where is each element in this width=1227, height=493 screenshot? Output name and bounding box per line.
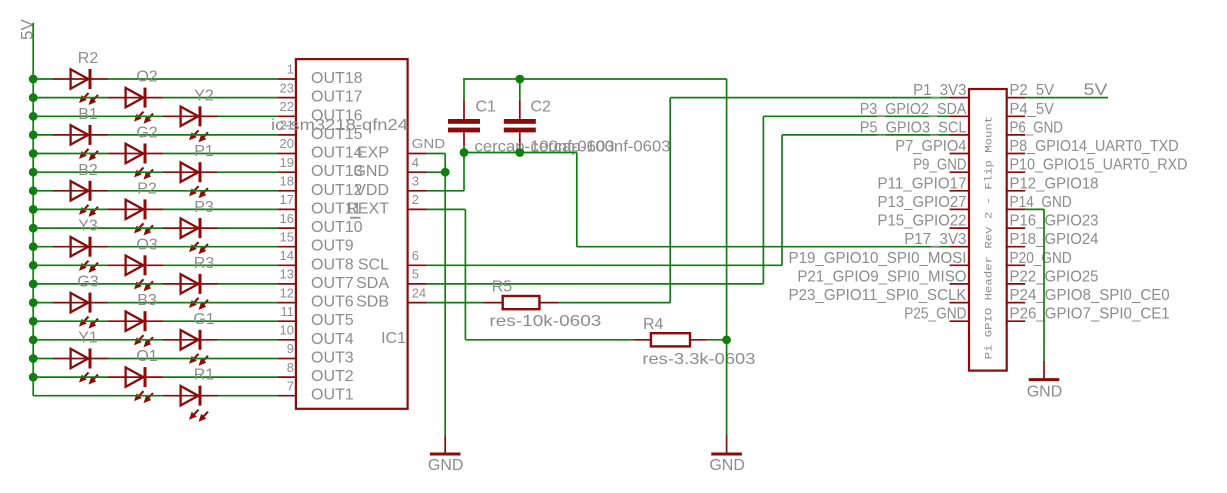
ground GND (Pi header) (1027, 361, 1063, 401)
svg-text:9: 9 (287, 341, 294, 356)
wire R5 to 3V3/P1 (559, 98, 950, 303)
svg-text:R3: R3 (194, 255, 215, 272)
svg-text:GND: GND (353, 163, 389, 180)
svg-text:EXP: EXP (357, 145, 389, 162)
JP1 left pin stubs (950, 98, 970, 322)
capacitor C1 (448, 100, 480, 146)
LED G1 (163, 330, 218, 366)
svg-text:SDA: SDA (356, 275, 389, 292)
junction EXP/GND (441, 168, 450, 177)
svg-text:REXT: REXT (346, 200, 389, 217)
svg-text:P6_GND: P6_GND (1010, 119, 1063, 136)
svg-text:P22_GPIO25: P22_GPIO25 (1010, 268, 1099, 285)
capacitor C2 (504, 100, 536, 146)
svg-text:B2: B2 (78, 162, 98, 179)
IC1 right pin stubs (408, 154, 427, 303)
svg-text:10: 10 (280, 323, 294, 338)
svg-text:P26_GPIO7_SPI0_CE1: P26_GPIO7_SPI0_CE1 (1010, 306, 1170, 323)
svg-text:13: 13 (280, 267, 294, 282)
wire C2 top lead to GND rail (519, 79, 521, 100)
wire R4 to GND vertical (707, 339, 727, 341)
svg-text:C1: C1 (476, 99, 497, 116)
svg-text:OUT10: OUT10 (311, 219, 363, 236)
svg-text:P21_GPIO9_SPI0_MISO: P21_GPIO9_SPI0_MISO (797, 268, 966, 285)
IC1 left pin numbers (280, 62, 294, 394)
svg-text:11: 11 (281, 304, 295, 319)
wire C1 bottom lead (463, 146, 465, 152)
svg-text:OUT4: OUT4 (311, 331, 354, 348)
wire C2 bottom lead (519, 146, 521, 152)
svg-text:Y1: Y1 (78, 330, 98, 347)
LED B3 (108, 311, 163, 347)
wire anode/cathode row 4 (33, 134, 277, 136)
junction R4/GND (722, 335, 731, 344)
svg-text:OUT2: OUT2 (311, 368, 354, 385)
wire 3V3 to P17 (577, 153, 950, 247)
svg-text:4: 4 (412, 155, 419, 170)
wire C1 top lead to GND rail (463, 79, 465, 100)
svg-text:5V: 5V (1084, 80, 1109, 99)
svg-text:8: 8 (287, 360, 294, 375)
LED G2 (108, 144, 163, 180)
svg-text:23: 23 (280, 80, 294, 95)
svg-text:P5_GPIO3_SCL: P5_GPIO3_SCL (860, 119, 967, 136)
wire 3V3 rail (cap bottoms) (464, 152, 577, 154)
wire SDA to P3 (427, 116, 950, 284)
svg-text:5: 5 (412, 267, 419, 282)
svg-text:Y3: Y3 (78, 218, 98, 235)
LED R3 (163, 274, 218, 310)
svg-text:R4: R4 (643, 316, 664, 333)
wire P14 GND (1025, 209, 1044, 361)
LED P2 (108, 199, 163, 235)
svg-text:GND: GND (1027, 384, 1063, 401)
svg-text:12: 12 (280, 285, 294, 300)
wire anode/cathode row 10 (33, 246, 277, 248)
JP1 right pin labels (1010, 82, 1188, 323)
junction C1 bottom (460, 148, 469, 157)
svg-text:P20_GND: P20_GND (1010, 250, 1072, 267)
junction dots on 5V bus (29, 75, 38, 382)
wire GND top rail (463, 78, 726, 80)
wire anode/cathode row 8 (33, 208, 277, 210)
svg-text:P7_GPIO4: P7_GPIO4 (895, 138, 966, 155)
svg-text:res-10k-0603: res-10k-0603 (489, 313, 601, 330)
LED Y2 (163, 106, 218, 142)
wire anode/cathode row 3 (33, 115, 277, 117)
svg-text:P10_GPIO15_UART0_RXD: P10_GPIO15_UART0_RXD (1010, 157, 1188, 174)
svg-text:P3: P3 (194, 199, 214, 216)
svg-text:res-3.3k-0603: res-3.3k-0603 (642, 351, 755, 368)
svg-text:P2_5V: P2_5V (1010, 82, 1055, 99)
svg-text:P11_GPIO17: P11_GPIO17 (878, 175, 967, 192)
svg-text:VDD: VDD (355, 182, 389, 199)
wire anode/cathode row 15 (33, 339, 277, 341)
wire anode/cathode row 2 (33, 97, 277, 99)
svg-text:P19_GPIO10_SPI0_MOSI: P19_GPIO10_SPI0_MOSI (789, 250, 967, 267)
svg-text:18: 18 (280, 174, 294, 189)
svg-text:P13_GPIO27: P13_GPIO27 (878, 194, 967, 211)
svg-text:6: 6 (412, 248, 419, 263)
wire anode/cathode row 5 (33, 153, 277, 155)
wire anode/cathode row 7 (33, 190, 277, 192)
LED P3 (163, 218, 218, 254)
wire anode/cathode row 9 (33, 227, 277, 229)
IC1 left pin names OUT18..OUT1 (311, 70, 363, 404)
svg-text:22: 22 (280, 99, 294, 114)
JP1 left pin labels (789, 82, 967, 323)
svg-text:7: 7 (287, 378, 294, 393)
svg-text:G2: G2 (136, 125, 157, 142)
resistor R5 (483, 296, 559, 309)
LED Y1 (53, 349, 108, 385)
wire SCL to P5 (427, 135, 950, 265)
svg-text:G1: G1 (193, 311, 214, 328)
svg-text:16: 16 (280, 211, 294, 226)
LED R1 (163, 386, 218, 422)
svg-text:R1: R1 (194, 367, 215, 384)
svg-text:P16_GPIO23: P16_GPIO23 (1010, 213, 1099, 230)
svg-text:P17_3V3: P17_3V3 (904, 231, 966, 248)
svg-text:19: 19 (280, 155, 294, 170)
svg-text:24: 24 (412, 285, 426, 300)
svg-text:GND: GND (412, 136, 446, 151)
connector JP1 rotated label (984, 116, 996, 360)
wire anode/cathode row 16 (33, 358, 277, 360)
svg-text:IC1: IC1 (381, 330, 406, 347)
svg-text:O1: O1 (136, 348, 157, 365)
svg-text:OUT17: OUT17 (311, 89, 363, 106)
wire anode/cathode row 18 (33, 395, 277, 397)
svg-text:P8_GPIO14_UART0_TXD: P8_GPIO14_UART0_TXD (1010, 138, 1179, 155)
svg-text:OUT8: OUT8 (311, 256, 354, 273)
LED G3 (53, 293, 108, 329)
wire 5V vertical bus (32, 23, 34, 396)
svg-text:SCL: SCL (358, 256, 389, 273)
svg-text:OUT1: OUT1 (311, 387, 354, 404)
LED R2 (53, 69, 108, 105)
svg-text:Pi GPIO Header Rev 2 - Flip Mo: Pi GPIO Header Rev 2 - Flip Mount (984, 116, 996, 360)
svg-text:OUT6: OUT6 (311, 294, 354, 311)
svg-text:P14_GND: P14_GND (1010, 194, 1072, 211)
IC1 right pad numbers (412, 136, 446, 300)
svg-text:P4_5V: P4_5V (1010, 101, 1055, 118)
svg-text:P1_3V3: P1_3V3 (913, 82, 966, 99)
svg-text:OUT3: OUT3 (311, 350, 354, 367)
wire anode/cathode row 13 (33, 302, 277, 304)
connector JP1 box (Pi GPIO Header) (969, 89, 1007, 371)
svg-text:P23_GPIO11_SPI0_SCLK: P23_GPIO11_SPI0_SCLK (789, 287, 967, 304)
svg-text:SDB: SDB (356, 294, 389, 311)
svg-text:OUT5: OUT5 (311, 312, 354, 329)
svg-text:P12_GPIO18: P12_GPIO18 (1010, 175, 1099, 192)
wire anode/cathode row 17 (33, 376, 277, 378)
LED B2 (53, 181, 108, 217)
svg-text:G3: G3 (77, 274, 98, 291)
wire anode/cathode row 11 (33, 264, 277, 266)
resistor R4 (633, 333, 707, 346)
svg-text:P2: P2 (137, 180, 157, 197)
svg-text:3: 3 (412, 174, 419, 189)
power supply 5V label (rotated) (18, 19, 37, 40)
svg-text:O3: O3 (136, 236, 157, 253)
wire anode/cathode row 6 (33, 171, 277, 173)
svg-text:P18_GPIO24: P18_GPIO24 (1010, 231, 1099, 248)
wire P2 5V (1025, 97, 1108, 99)
svg-text:OUT18: OUT18 (311, 70, 363, 87)
wire EXP pad (427, 154, 445, 173)
IC1 left pin stubs (278, 79, 296, 396)
svg-text:2: 2 (412, 192, 419, 207)
wire anode/cathode row 12 (33, 283, 277, 285)
wire GND vertical (rail to R4) (726, 79, 728, 340)
svg-text:R5: R5 (492, 279, 513, 296)
LED O1 (108, 367, 163, 403)
LED O3 (108, 255, 163, 291)
svg-text:C2: C2 (531, 99, 552, 116)
svg-text:P3_GPIO2_SDA: P3_GPIO2_SDA (860, 101, 967, 118)
svg-text:P15_GPIO22: P15_GPIO22 (878, 213, 967, 230)
svg-text:OUT9: OUT9 (311, 238, 354, 255)
svg-text:P9_GND: P9_GND (913, 157, 966, 174)
IC U1 box (ic-sm3218-qfn24) (296, 59, 408, 409)
svg-text:14: 14 (280, 248, 294, 263)
LED P1 (163, 162, 218, 198)
svg-text:GND: GND (428, 457, 464, 474)
svg-text:1: 1 (287, 62, 294, 77)
svg-text:O2: O2 (136, 69, 157, 86)
svg-text:OUT14: OUT14 (311, 145, 363, 162)
wire SDB to R5 (427, 302, 483, 304)
wire anode/cathode row 1 (33, 78, 277, 80)
wire GND pin4 (427, 171, 445, 173)
svg-text:P24_GPIO8_SPI0_CE0: P24_GPIO8_SPI0_CE0 (1010, 287, 1170, 304)
svg-text:15: 15 (280, 229, 294, 244)
wire REXT to R4 (427, 209, 633, 339)
ground GND (middle) (709, 435, 745, 474)
LED B1 (53, 125, 108, 161)
LED O2 (108, 88, 163, 124)
junction C2 bottom (515, 148, 524, 157)
svg-text:P1: P1 (194, 143, 214, 160)
ground GND (left) (428, 435, 464, 474)
IC1 right pin names (346, 145, 389, 311)
wire anode/cathode row 14 (33, 320, 277, 322)
svg-text:B3: B3 (137, 292, 157, 309)
stray underscore mark (REXT row) (350, 217, 361, 219)
LED Y3 (53, 237, 108, 273)
svg-text:GND: GND (709, 457, 745, 474)
svg-text:OUT7: OUT7 (311, 275, 354, 292)
svg-text:B1: B1 (78, 106, 98, 123)
JP1 right pin stubs (1007, 98, 1025, 322)
svg-text:R2: R2 (78, 50, 99, 67)
wire GND down to symbol (444, 172, 446, 434)
wire VDD pin3 (427, 153, 464, 191)
wire GND vertical to symbol (726, 340, 728, 435)
svg-text:20: 20 (280, 136, 294, 151)
svg-text:ic-sm3218-qfn24: ic-sm3218-qfn24 (271, 117, 408, 134)
svg-text:Y2: Y2 (194, 87, 214, 104)
svg-text:17: 17 (280, 192, 294, 207)
junction C2 top (515, 75, 524, 84)
svg-text:P25_GND: P25_GND (904, 306, 966, 323)
